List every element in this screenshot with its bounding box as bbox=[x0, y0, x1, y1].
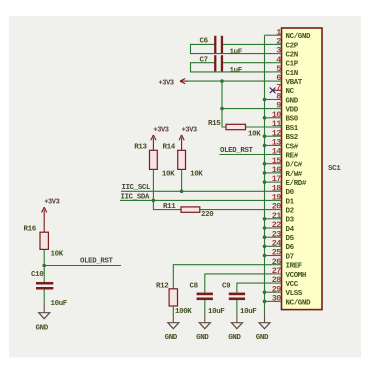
svg-text:1uF: 1uF bbox=[230, 49, 243, 57]
svg-text:C10: C10 bbox=[31, 271, 44, 279]
svg-text:+3V3: +3V3 bbox=[153, 126, 168, 134]
svg-text:C1P: C1P bbox=[286, 61, 299, 69]
junction pin 12 bbox=[263, 134, 267, 138]
pin 25 D7 bbox=[272, 248, 294, 262]
junction pin 24 bbox=[263, 245, 267, 249]
junction VDD bbox=[220, 107, 224, 111]
svg-text:C2P: C2P bbox=[286, 42, 299, 50]
pin 28 VCC bbox=[272, 275, 299, 289]
junction pin 13 bbox=[263, 144, 267, 148]
svg-text:10K: 10K bbox=[248, 130, 261, 138]
svg-text:OLED_RST: OLED_RST bbox=[220, 147, 254, 155]
svg-text:10uF: 10uF bbox=[240, 308, 257, 316]
wire rail to pin 16 bbox=[265, 172, 273, 174]
pin 4 C1P bbox=[273, 55, 299, 69]
svg-text:GND: GND bbox=[165, 334, 178, 342]
resistor R11 bbox=[181, 207, 200, 212]
svg-text:C7: C7 bbox=[200, 57, 208, 65]
junction pin 10 bbox=[263, 116, 267, 120]
junction pin 17 bbox=[263, 180, 267, 184]
svg-text:NC: NC bbox=[286, 88, 295, 96]
svg-text:D6: D6 bbox=[286, 244, 295, 252]
resistor R13 bbox=[150, 150, 158, 169]
svg-text:IIC_SDA: IIC_SDA bbox=[121, 193, 150, 201]
junction pin 23 bbox=[263, 235, 267, 239]
wire pin26 IREF to R12 bbox=[173, 265, 272, 289]
resistor R12 bbox=[169, 289, 177, 306]
svg-text:VCOMH: VCOMH bbox=[286, 272, 307, 280]
wire IIC_SDA to pin19 D1 bbox=[120, 199, 273, 201]
pin 16 R/W# bbox=[272, 165, 303, 179]
resistor R16 bbox=[40, 232, 48, 249]
wire C8 to GND bbox=[204, 300, 206, 313]
pin 7 NC bbox=[273, 82, 295, 96]
svg-text:C2N: C2N bbox=[286, 52, 298, 60]
svg-text:10K: 10K bbox=[162, 171, 175, 179]
wire pin4 C1P to C7 bbox=[222, 62, 273, 64]
wire GND rail bbox=[264, 35, 266, 313]
svg-text:D1: D1 bbox=[286, 198, 295, 206]
pin 6 VBAT bbox=[273, 73, 303, 87]
wire rail to pin 13 bbox=[265, 144, 273, 146]
junction pin 15 bbox=[263, 162, 267, 166]
svg-text:OLED_RST: OLED_RST bbox=[80, 258, 114, 266]
wire pin9 VDD bbox=[222, 108, 273, 110]
no-connect X pin 7 bbox=[270, 88, 276, 94]
wire rail to pin 23 bbox=[265, 236, 273, 238]
wire rail to pin 25 bbox=[265, 255, 273, 257]
svg-text:D2: D2 bbox=[286, 208, 295, 216]
svg-text:100K: 100K bbox=[175, 308, 192, 316]
pin 12 BS2 bbox=[272, 128, 299, 142]
svg-text:D4: D4 bbox=[286, 226, 295, 234]
pin 14 RE# bbox=[272, 147, 299, 161]
svg-text:R/W#: R/W# bbox=[286, 171, 303, 179]
power flag +3V3 R14 bbox=[179, 126, 197, 150]
svg-text:R16: R16 bbox=[24, 226, 37, 234]
wire rail to pin 21 bbox=[265, 218, 273, 220]
capacitor C8 bbox=[197, 293, 213, 301]
pin 15 D/C# bbox=[272, 156, 303, 170]
svg-text:D0: D0 bbox=[286, 189, 295, 197]
wire R15 to pin11 BS1 bbox=[246, 126, 273, 128]
wire R13 to SDA bbox=[152, 169, 154, 200]
svg-text:C6: C6 bbox=[200, 38, 209, 46]
svg-text:R11: R11 bbox=[163, 203, 176, 211]
wire C10 to GND bbox=[43, 290, 45, 303]
svg-text:30: 30 bbox=[272, 294, 282, 304]
junction R14/SCL bbox=[180, 190, 184, 194]
capacitor C7 bbox=[214, 55, 223, 71]
svg-text:GND: GND bbox=[256, 334, 269, 342]
svg-text:VLSS: VLSS bbox=[286, 290, 303, 298]
pin 13 CS# bbox=[272, 138, 299, 152]
junction pin 8 bbox=[263, 98, 267, 102]
pin 30 NC/GND bbox=[272, 294, 311, 308]
svg-text:IIC_SCL: IIC_SCL bbox=[122, 184, 151, 192]
wire rail to pin 29 bbox=[265, 291, 273, 293]
svg-text:RE#: RE# bbox=[286, 152, 299, 160]
wire R11 to pin20 D2 bbox=[200, 209, 273, 211]
svg-text:GND: GND bbox=[286, 97, 299, 105]
wire C9 to GND bbox=[236, 300, 238, 313]
wire rail to pin 22 bbox=[265, 227, 273, 229]
wire pin2 C2P to C6 bbox=[222, 43, 273, 45]
wire C7 to pin5 C1N bbox=[191, 63, 273, 72]
junction R13/SDA/R11 bbox=[152, 199, 156, 203]
connector SC1 body bbox=[282, 28, 323, 310]
wire pin6 VBAT to +3V3 bbox=[188, 80, 273, 82]
wire VBAT down to VDD and R15 bbox=[222, 81, 226, 127]
junction pin 25 bbox=[263, 254, 267, 258]
svg-text:10uF: 10uF bbox=[51, 300, 68, 308]
svg-text:SC1: SC1 bbox=[328, 165, 341, 173]
svg-text:10K: 10K bbox=[51, 251, 64, 259]
pin 18 D0 bbox=[272, 183, 295, 197]
resistor R15 bbox=[226, 124, 246, 129]
wire rail to pin 12 bbox=[265, 135, 273, 137]
wire C6 to pin3 C2N bbox=[191, 44, 273, 53]
pin 17 E/RD# bbox=[272, 174, 307, 188]
junction R16/C10/OLED_RST bbox=[42, 264, 46, 268]
capacitor C9 bbox=[229, 293, 245, 301]
ground C10 bbox=[36, 303, 50, 333]
svg-text:R12: R12 bbox=[156, 283, 169, 291]
pin 5 C1N bbox=[273, 64, 298, 78]
pin 11 BS1 bbox=[272, 119, 299, 133]
pin 21 D3 bbox=[272, 211, 295, 225]
pin 19 D1 bbox=[272, 193, 295, 207]
wire rail to pin 8 bbox=[265, 99, 273, 101]
ground C8 bbox=[196, 313, 210, 342]
pin 1 NC/GND bbox=[273, 27, 311, 41]
resistor R14 bbox=[178, 150, 186, 169]
wire pin1 to rail bbox=[265, 34, 273, 36]
svg-text:E/RD#: E/RD# bbox=[286, 180, 307, 188]
svg-text:VCC: VCC bbox=[286, 281, 299, 289]
pin 22 D4 bbox=[272, 220, 295, 234]
svg-text:CS#: CS# bbox=[286, 143, 299, 151]
wire rail to pin 10 bbox=[265, 117, 273, 119]
svg-text:VBAT: VBAT bbox=[286, 79, 303, 87]
wire rail to pin 15 bbox=[265, 163, 273, 165]
svg-text:BS1: BS1 bbox=[286, 125, 299, 133]
ground rail bbox=[256, 313, 270, 342]
junction pin 16 bbox=[263, 171, 267, 175]
svg-text:GND: GND bbox=[228, 334, 241, 342]
svg-text:+3V3: +3V3 bbox=[182, 126, 197, 134]
power flag +3V3 R13 bbox=[151, 126, 169, 150]
junction pin 21 bbox=[263, 217, 267, 221]
pin 9 VDD bbox=[273, 101, 299, 115]
svg-text:NC/GND: NC/GND bbox=[286, 33, 312, 41]
svg-text:BS2: BS2 bbox=[286, 134, 299, 142]
pin 23 D5 bbox=[272, 229, 295, 243]
wire R16 to C10 bbox=[43, 249, 45, 282]
wire SDA junction down to R11 bbox=[153, 200, 181, 209]
junction pin 30 bbox=[263, 300, 267, 304]
wire R14 to SCL bbox=[181, 169, 183, 191]
svg-text:220: 220 bbox=[201, 211, 214, 219]
ground C9 bbox=[228, 313, 242, 342]
wire OLED_RST stub left bbox=[44, 265, 121, 267]
capacitor C6 bbox=[214, 36, 223, 53]
svg-text:NC/GND: NC/GND bbox=[286, 299, 312, 307]
power flag +3V3 VBAT bbox=[159, 79, 189, 88]
wire pin28 VCC to C9 bbox=[237, 283, 273, 293]
svg-text:10K: 10K bbox=[190, 171, 203, 179]
pin 10 BS0 bbox=[272, 110, 299, 124]
svg-text:R13: R13 bbox=[134, 144, 147, 152]
svg-text:R15: R15 bbox=[208, 120, 221, 128]
junction pin 29 bbox=[263, 290, 267, 294]
ground R12 bbox=[165, 313, 179, 342]
svg-text:GND: GND bbox=[196, 334, 209, 342]
svg-text:+3V3: +3V3 bbox=[159, 79, 174, 87]
svg-text:C9: C9 bbox=[222, 283, 231, 291]
svg-text:R14: R14 bbox=[163, 144, 176, 152]
wire rail to pin 17 bbox=[265, 181, 273, 183]
svg-text:GND: GND bbox=[36, 325, 49, 333]
wire pin27 VCOMH to C8 bbox=[205, 274, 273, 293]
pin 29 VLSS bbox=[272, 284, 303, 298]
pin 3 C2N bbox=[273, 46, 298, 60]
pin 26 IREF bbox=[272, 257, 303, 271]
wire rail to pin 24 bbox=[265, 245, 273, 247]
pin 20 D2 bbox=[272, 202, 295, 216]
pin 8 GND bbox=[273, 92, 299, 106]
junction VBAT/VDD bbox=[220, 79, 224, 83]
svg-text:D3: D3 bbox=[286, 217, 295, 225]
svg-text:D7: D7 bbox=[286, 253, 294, 261]
svg-text:VDD: VDD bbox=[286, 107, 299, 115]
svg-text:+3V3: +3V3 bbox=[44, 199, 59, 207]
svg-text:10uF: 10uF bbox=[208, 308, 225, 316]
wire IIC_SCL to pin18 D0 bbox=[121, 190, 273, 192]
pin 24 D6 bbox=[272, 238, 295, 252]
pin 2 C2P bbox=[273, 37, 299, 51]
wire pin14 RE# OLED_RST bbox=[220, 154, 273, 156]
svg-text:IREF: IREF bbox=[286, 263, 303, 271]
svg-text:1uF: 1uF bbox=[230, 67, 243, 75]
wire rail to pin 30 bbox=[265, 300, 273, 302]
wire R12 to GND bbox=[172, 306, 174, 313]
svg-text:C1N: C1N bbox=[286, 70, 298, 78]
svg-text:D5: D5 bbox=[286, 235, 295, 243]
svg-text:BS0: BS0 bbox=[286, 116, 299, 124]
svg-text:D/C#: D/C# bbox=[286, 162, 303, 170]
pin 27 VCOMH bbox=[272, 266, 306, 280]
svg-text:C8: C8 bbox=[190, 283, 199, 291]
power flag +3V3 R16 bbox=[42, 199, 60, 233]
junction pin 22 bbox=[263, 226, 267, 230]
capacitor C10 bbox=[36, 282, 53, 290]
